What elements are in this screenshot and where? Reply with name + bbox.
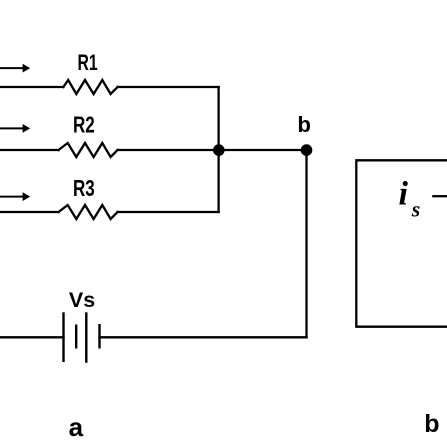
- box of panel b (current source network): [356, 160, 447, 326]
- current arrow into R2: [0, 124, 30, 133]
- wire: R2 left lead: [0, 149, 59, 151]
- svg-text:Vs: Vs: [69, 288, 95, 312]
- node b dot: [301, 144, 313, 156]
- battery Vs: [64, 312, 100, 363]
- wire: R1 right lead to top-right corner: [118, 86, 219, 88]
- battery plate short 2: [98, 324, 100, 349]
- svg-text:b: b: [297, 112, 311, 137]
- current arrow into R1: [0, 64, 30, 73]
- resistor R3: [59, 205, 118, 219]
- wire: R3 left lead: [0, 211, 59, 213]
- svg-text:a: a: [69, 412, 84, 442]
- wire: arrow stub right of i_s: [432, 195, 447, 197]
- wire: bottom return battery to left edge: [0, 336, 64, 338]
- current arrow into R3: [0, 192, 30, 201]
- svg-text:R1: R1: [78, 50, 98, 75]
- wire: bottom return from b to battery positive: [100, 336, 307, 338]
- svg-text:R3: R3: [73, 177, 95, 202]
- battery plate short 1: [75, 325, 77, 349]
- wire: vertical from node b down: [305, 150, 307, 337]
- wire: node to node b: [219, 149, 307, 151]
- svg-text:b: b: [424, 410, 439, 438]
- resistor R1: [63, 80, 117, 94]
- svg-text:s: s: [411, 196, 421, 221]
- wire: right vertical bus joining R1,R2,R3: [217, 87, 219, 212]
- node junction dot: [213, 144, 225, 156]
- battery plate long 1: [62, 312, 64, 362]
- wire: R1 left lead: [0, 86, 63, 88]
- svg-text:i: i: [399, 176, 409, 213]
- resistor R2: [59, 143, 118, 157]
- battery plate long 2: [85, 312, 87, 363]
- wire: R2 right lead to node: [118, 149, 219, 151]
- svg-text:R2: R2: [73, 113, 95, 138]
- wire: R3 right lead to bottom corner: [118, 211, 219, 213]
